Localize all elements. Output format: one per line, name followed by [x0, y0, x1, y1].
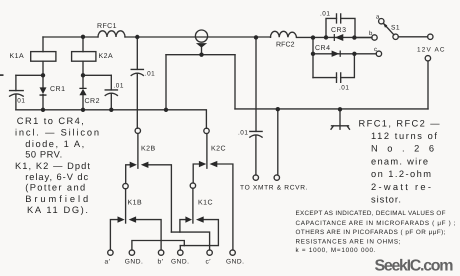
svg-text:CAPACITANCE ARE IN MICROFARADS: CAPACITANCE ARE IN MICROFARADS ( μF ) ;: [296, 220, 456, 227]
bus left horizontal: [16, 110, 207, 129]
relay contact K1C common terminal: [190, 183, 195, 188]
capacitor C5 .01 plates: [337, 14, 341, 23]
wire C2 bottom lead: [110, 94, 112, 110]
contact arrow K2B left: [130, 162, 137, 168]
wire C4 bottom lead: [255, 136, 257, 175]
terminal b: [372, 35, 377, 40]
svg-text:Brumfield: Brumfield: [25, 194, 88, 204]
junction node sleeve-left bus: [164, 108, 168, 112]
svg-text:TO XMTR & RCVR.: TO XMTR & RCVR.: [240, 185, 308, 192]
wire to terminal b: [354, 37, 371, 39]
svg-text:112 turns of: 112 turns of: [371, 131, 437, 141]
svg-text:S1: S1: [391, 25, 400, 32]
switch S1 arm blade: [383, 23, 387, 28]
wire 12VAC return riser: [427, 61, 429, 109]
junction node xmtr-right bus: [276, 107, 280, 111]
svg-text:K2B: K2B: [141, 146, 156, 153]
svg-text:KA 11 DG).: KA 11 DG).: [27, 205, 88, 215]
svg-text:RFC1: RFC1: [97, 23, 117, 30]
svg-text:K1, K2 — Dpdt: K1, K2 — Dpdt: [15, 161, 90, 171]
inductor RFC1: [98, 31, 125, 37]
wire K2A bottom lead: [82, 61, 84, 75]
capacitor C4 top lead: [255, 37, 257, 131]
diode CR1 leads: [42, 75, 44, 110]
svg-text:K1A: K1A: [10, 53, 25, 60]
wire K2B right contact: [148, 165, 171, 232]
terminal c: [376, 51, 381, 56]
svg-text:CR3: CR3: [331, 27, 347, 34]
svg-text:.01: .01: [238, 130, 248, 137]
contact arrow K1C right: [196, 216, 204, 222]
svg-text:.01: .01: [145, 71, 155, 78]
diode CR2 body: [79, 88, 86, 96]
svg-text:GND.: GND.: [226, 258, 244, 265]
ground lead: [339, 109, 341, 125]
jack J1 stem: [201, 47, 203, 55]
wire GND2 riser: [179, 246, 181, 250]
contact arrow K1B right: [129, 216, 137, 222]
wire top RF line mid segment: [125, 36, 271, 38]
wire GND1 riser and link: [132, 241, 184, 251]
svg-text:RESISTANCES ARE IN OHMS;: RESISTANCES ARE IN OHMS;: [296, 239, 401, 246]
junction node K2A top: [81, 35, 85, 39]
svg-text:.01: .01: [15, 98, 25, 105]
wire K1C right contact to gnd line: [180, 220, 218, 246]
wire node K1A-C1: [16, 74, 43, 76]
contact arrow K2C right: [210, 161, 218, 167]
junction node jack sleeve: [199, 53, 203, 57]
junction node cap5 riser: [324, 35, 328, 39]
wire C2 top lead: [110, 75, 112, 90]
svg-text:RFC1, RFC2 —: RFC1, RFC2 —: [359, 119, 441, 129]
terminal 12VAC top: [428, 34, 433, 39]
junction node CR4 out: [352, 52, 356, 56]
junction node CR1 bus: [41, 108, 45, 112]
relay coil K1A: [31, 52, 56, 62]
inductor RFC2: [271, 31, 297, 37]
wire K2A top lead: [82, 37, 84, 52]
svg-text:c: c: [374, 47, 378, 53]
junction node CR4 left: [311, 52, 315, 56]
svg-text:(Potter and: (Potter and: [25, 183, 85, 193]
svg-text:on 1.2-ohm: on 1.2-ohm: [371, 169, 431, 179]
junction node C4 top: [254, 35, 258, 39]
terminal xmtr right: [274, 175, 279, 180]
svg-text:K1B: K1B: [128, 200, 143, 207]
wire C3 bottom lead to K2B crossing bus: [136, 74, 138, 128]
diode CR2 leads: [82, 75, 84, 110]
wire to terminal c: [354, 53, 376, 55]
wire K1A top lead: [42, 37, 44, 52]
wire S1 to 12VAC: [398, 36, 427, 38]
wire K1A bottom lead: [42, 61, 44, 75]
svg-text:50 PRV.: 50 PRV.: [25, 150, 62, 160]
contact arrow K2C left: [199, 161, 206, 167]
svg-text:N o . 2 6: N o . 2 6: [371, 144, 434, 154]
svg-text:.01: .01: [339, 85, 349, 92]
svg-text:K1C: K1C: [198, 200, 213, 207]
svg-text:b′: b′: [158, 258, 164, 265]
svg-text:.01: .01: [320, 11, 330, 18]
svg-text:CR2: CR2: [85, 98, 101, 105]
wire jog K2B-right to K1C-left and c': [171, 232, 209, 250]
relay contact K2B common terminal: [135, 128, 140, 133]
svg-text:enam. wire: enam. wire: [371, 157, 428, 167]
switch S1 pole terminal: [393, 34, 398, 39]
junction node CR3 out: [352, 35, 356, 39]
terminal 12VAC bottom: [425, 56, 430, 61]
svg-text:relay, 6-V dc: relay, 6-V dc: [25, 172, 88, 182]
wire C1 bottom lead: [15, 95, 17, 110]
wire cap5 loop top: [326, 18, 355, 37]
junction node K1A bottom: [41, 73, 45, 77]
wire K1C left contact riser: [180, 220, 186, 233]
capacitor C4 .01 plates: [250, 131, 262, 137]
svg-text:CR1 to CR4,: CR1 to CR4,: [17, 116, 84, 126]
junction node K2A bottom: [81, 73, 85, 77]
relay contact K1C wiper: [192, 188, 194, 223]
capacitor C3 .01 plates: [131, 69, 143, 75]
svg-text:K2C: K2C: [211, 146, 226, 153]
contact arrow K1C left: [185, 216, 192, 222]
svg-text:diode, 1 A,: diode, 1 A,: [25, 139, 84, 149]
terminal xmtr left: [253, 175, 258, 180]
wire sleeve left riser: [165, 55, 167, 110]
svg-text:a′: a′: [105, 258, 111, 265]
wire K1B left contact to a': [110, 220, 117, 250]
contact arrow K1B left: [118, 216, 125, 222]
svg-text:K2A: K2A: [99, 53, 114, 60]
wire C3 top lead: [136, 37, 138, 69]
svg-text:OTHERS ARE IN PICOFARADS ( pF: OTHERS ARE IN PICOFARADS ( pF OR μμF);: [296, 229, 446, 236]
switch S1 arm: [384, 24, 394, 35]
junction node C2 bus: [109, 108, 113, 112]
svg-text:GND.: GND.: [125, 258, 143, 265]
diode CR3 body: [334, 34, 344, 41]
relay contact K2C common terminal: [204, 128, 209, 133]
svg-text:b: b: [369, 30, 373, 37]
wire K2C left contact to K1C common: [193, 164, 199, 183]
wire CR4 row: [313, 53, 354, 55]
wire K2C right contact to GND3: [217, 164, 233, 250]
terminal a': [108, 250, 113, 255]
relay contact K2C wiper: [206, 134, 208, 169]
diode CR4 body: [332, 51, 341, 57]
capacitor C6 .01 plates: [337, 73, 341, 82]
wire K2B left contact to K1B common: [126, 165, 130, 184]
svg-text:.01: .01: [114, 83, 124, 90]
svg-text:2-watt re-: 2-watt re-: [371, 182, 431, 192]
relay coil K2A: [72, 52, 96, 62]
terminal GND2: [178, 250, 183, 255]
junction node C3 top: [135, 35, 139, 39]
junction node ground bus: [338, 107, 342, 111]
wire node K2A-C2: [83, 74, 111, 76]
terminal GND3: [230, 250, 235, 255]
svg-text:k = 1000, M=1000 000.: k = 1000, M=1000 000.: [296, 247, 376, 254]
svg-text:RFC2: RFC2: [276, 42, 295, 49]
capacitor C2 .01 plates: [105, 90, 117, 96]
wire CR4 branch riser: [312, 38, 314, 78]
wire cap6 loop bottom: [313, 54, 354, 78]
margin mark left upper: [0, 74, 4, 76]
jack J1 circle: [195, 30, 207, 42]
svg-text:a: a: [376, 15, 380, 21]
svg-text:SeekIC.com: SeekIC.com: [375, 258, 454, 275]
svg-text:CR1: CR1: [50, 86, 66, 93]
jack J1 pin triangle: [196, 43, 207, 48]
capacitor C1 .01 plates: [10, 91, 24, 97]
wire K1B right contact to b': [136, 220, 161, 250]
terminal GND1: [129, 250, 134, 255]
svg-text:sistor.: sistor.: [371, 195, 401, 205]
ground bar: [331, 126, 350, 129]
relay contact K1B common terminal: [123, 183, 128, 188]
terminal a: [379, 19, 384, 24]
svg-text:c′: c′: [206, 258, 212, 265]
relay contact K2B wiper: [137, 134, 139, 169]
wire jack sleeve line: [166, 54, 235, 56]
bus right horizontal: [235, 108, 428, 110]
svg-text:incl. — Silicon: incl. — Silicon: [15, 127, 99, 137]
wire sleeve right riser: [234, 55, 236, 109]
wire top RF line right segment: [297, 36, 373, 38]
svg-text:EXCEPT AS INDICATED, DECIMAL V: EXCEPT AS INDICATED, DECIMAL VALUES OF: [296, 210, 446, 217]
svg-text:12V AC: 12V AC: [417, 47, 445, 54]
contact arrow K2B right: [141, 162, 149, 168]
diode CR1 body: [40, 87, 47, 95]
wire C1 top lead: [15, 75, 17, 90]
terminal c': [207, 250, 212, 255]
svg-text:GND.: GND.: [171, 258, 189, 265]
junction node CR2 bus: [81, 108, 85, 112]
wire xmtr right lead: [277, 109, 279, 175]
terminal b': [158, 250, 163, 255]
wire top RF line left segment: [43, 36, 98, 38]
svg-text:CR4: CR4: [315, 45, 331, 52]
relay contact K1B wiper: [125, 189, 127, 223]
junction node CR4 branch: [311, 35, 315, 39]
